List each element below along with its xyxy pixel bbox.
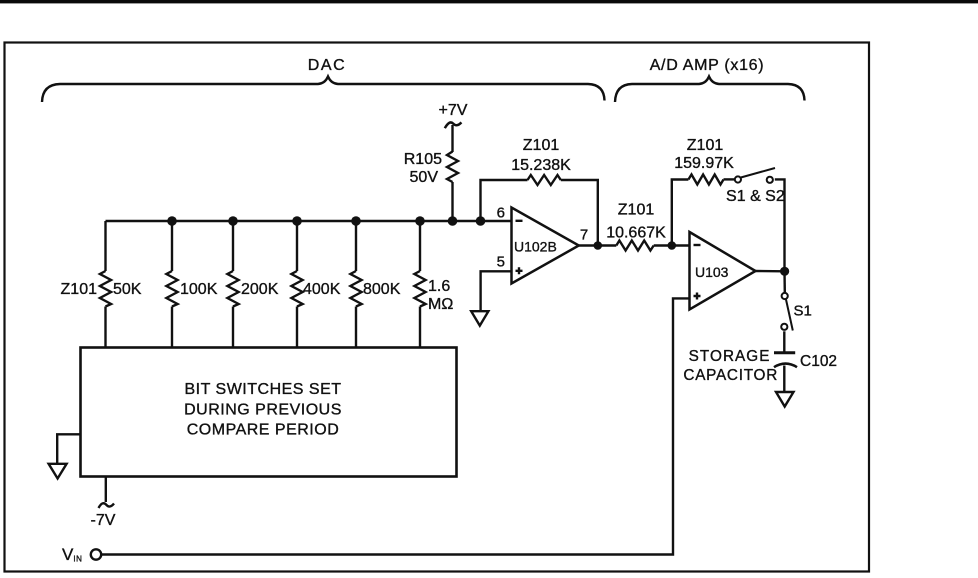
- resistor 100K: [166, 271, 177, 307]
- top page rule: [0, 0, 978, 3]
- wire to U103: [654, 244, 690, 246]
- resistor 400K: [291, 271, 302, 307]
- svg-text:Z101: Z101: [523, 137, 560, 154]
- svg-text:50K: 50K: [113, 281, 142, 298]
- svg-text:200K: 200K: [241, 281, 279, 298]
- svg-text:Z101: Z101: [687, 137, 724, 154]
- op-amp U102B: [512, 208, 579, 284]
- ground C102: [776, 392, 794, 407]
- resistor Z101 159.97K: [688, 175, 723, 185]
- resistor Z101 10.667K: [616, 241, 653, 251]
- wire 800K to box: [355, 307, 357, 349]
- svg-text:MΩ: MΩ: [428, 296, 453, 313]
- brace A/D AMP: [615, 77, 805, 103]
- box BIT SWITCHES: [81, 348, 457, 477]
- wire U102B output: [579, 244, 617, 246]
- wire 1.6M to box: [419, 307, 421, 349]
- svg-text:S1 & S2: S1 & S2: [726, 188, 785, 205]
- svg-text:STORAGE: STORAGE: [689, 348, 771, 365]
- svg-text:800K: 800K: [363, 281, 401, 298]
- ground left: [49, 464, 67, 479]
- wire C102 to ground: [783, 366, 785, 392]
- wire leg 100K: [171, 221, 173, 271]
- switch S1 contact bottom: [781, 324, 787, 330]
- svg-text:U102B: U102B: [514, 239, 557, 255]
- svg-text:15.238K: 15.238K: [511, 157, 571, 174]
- svg-text:CAPACITOR: CAPACITOR: [683, 367, 778, 384]
- wire VIN to U103 +: [101, 298, 689, 554]
- wire 200K to box: [232, 307, 234, 349]
- wire leg 200K: [232, 221, 234, 271]
- resistor 800K: [350, 271, 361, 307]
- wire U103 output: [756, 270, 785, 273]
- svg-text:U103: U103: [695, 264, 729, 280]
- wire out to S1: [783, 271, 786, 292]
- svg-text:10.667K: 10.667K: [606, 225, 666, 242]
- wire leg 50K: [104, 221, 106, 271]
- minus sign U102B: [516, 220, 523, 222]
- wire 50K to box: [104, 307, 106, 349]
- wire feedback U103 right: [775, 179, 785, 271]
- node dot feedback: [476, 216, 486, 226]
- switch S1 S2 contact left: [735, 176, 741, 182]
- -7V source squiggle: [99, 503, 115, 508]
- wire feedback U102B right: [561, 180, 598, 246]
- node dot U103 out: [780, 267, 789, 276]
- wire summing bus: [106, 220, 512, 222]
- svg-text:DURING PREVIOUS: DURING PREVIOUS: [184, 402, 342, 419]
- capacitor C102 bottom plate: [774, 364, 797, 368]
- svg-text:R105: R105: [404, 151, 442, 168]
- wire 100K to box: [171, 307, 173, 349]
- ground U102B: [471, 311, 488, 325]
- switch S1 S2 contact right: [767, 177, 773, 183]
- wire R105 to bus: [451, 182, 453, 221]
- svg-text:50V: 50V: [410, 169, 439, 186]
- svg-text:6: 6: [497, 205, 505, 222]
- plus sign U103: [694, 293, 701, 300]
- wire S1 to C102: [783, 331, 785, 351]
- plus sign U102B: [516, 267, 523, 274]
- resistor 1.6M: [414, 271, 425, 307]
- node dot 1.6M: [415, 216, 425, 226]
- wire U102B + input: [481, 271, 512, 311]
- node dot U103 in: [668, 241, 677, 250]
- node dot 800K: [351, 216, 361, 226]
- wire 400K to box: [296, 307, 298, 349]
- svg-text:-7V: -7V: [91, 512, 116, 529]
- node dot 200K: [228, 216, 238, 226]
- switch S1 contact top: [782, 293, 788, 299]
- svg-text:400K: 400K: [303, 281, 341, 298]
- switch S1 S2 arm: [741, 168, 775, 178]
- wire box to left ground: [57, 434, 80, 463]
- svg-text:Z101: Z101: [618, 202, 655, 219]
- svg-text:A/D AMP (x16): A/D AMP (x16): [650, 57, 765, 74]
- +7V source squiggle: [445, 122, 462, 128]
- brace DAC: [42, 77, 605, 103]
- node dot 400K: [292, 216, 302, 226]
- svg-text:S1: S1: [794, 303, 812, 320]
- node dot 100K: [167, 216, 177, 226]
- svg-text:7: 7: [580, 227, 588, 244]
- resistor 50K: [100, 271, 111, 307]
- switch S1 arm: [786, 300, 793, 331]
- svg-text:DAC: DAC: [308, 57, 347, 74]
- op-amp U103: [690, 232, 756, 310]
- wire leg 800K: [355, 221, 357, 271]
- svg-text:100K: 100K: [180, 281, 218, 298]
- capacitor C102 top plate: [774, 351, 795, 354]
- wire leg 400K: [296, 221, 298, 271]
- wire to switch S1S2: [724, 178, 735, 180]
- node dot R105: [448, 216, 458, 226]
- svg-text:5: 5: [497, 254, 505, 271]
- wire leg 1.6M: [419, 221, 421, 271]
- terminal VIN: [91, 549, 101, 559]
- resistor R105: [447, 152, 458, 183]
- wire feedback U102B left: [481, 180, 528, 221]
- svg-text:COMPARE PERIOD: COMPARE PERIOD: [187, 422, 340, 439]
- svg-text:159.97K: 159.97K: [674, 155, 734, 172]
- wire feedback U103 left: [672, 180, 689, 246]
- resistor 200K: [227, 271, 238, 307]
- svg-text:C102: C102: [800, 353, 837, 370]
- minus sign U103: [694, 244, 701, 246]
- svg-text:Z101: Z101: [61, 281, 98, 298]
- wire +7V to R105: [451, 125, 453, 152]
- node dot U102B out: [594, 241, 603, 250]
- wire box to -7V: [105, 477, 107, 503]
- resistor Z101 15.238K: [528, 175, 561, 185]
- svg-text:BIT SWITCHES SET: BIT SWITCHES SET: [184, 381, 341, 398]
- svg-text:+7V: +7V: [439, 102, 468, 119]
- svg-text:1.6: 1.6: [428, 278, 450, 295]
